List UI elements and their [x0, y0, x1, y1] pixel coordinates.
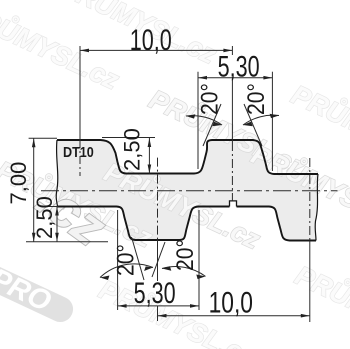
arrowheads: [32, 49, 310, 318]
tooth2 top extension + centerline x=232.4: [231, 46, 233, 55]
svg-text:20°: 20°: [196, 83, 223, 115]
bottom 5,30 extensions: [117, 210, 119, 310]
left wavy break line: [56, 140, 58, 207]
bottom-right 20 arc arrows: [162, 266, 171, 271]
top-right 20 arc arrows: [243, 122, 253, 127]
belt profile body: [56, 140, 318, 241]
svg-text:20°: 20°: [112, 244, 139, 276]
bottom-left 20 arc arrows: [100, 276, 109, 281]
5,30 top dim line + extensions: [198, 77, 272, 79]
20 deg bottom-right arc: [162, 267, 206, 277]
dimension texts: [6, 22, 269, 319]
20 deg bottom-left arc: [100, 264, 153, 278]
2,50 top: extension + dim line: [102, 137, 155, 139]
svg-text:2,50: 2,50: [32, 196, 57, 239]
svg-text:5,30: 5,30: [134, 275, 176, 309]
bottom 10,0 arrows: [158, 314, 167, 318]
5,30 top arrows: [198, 76, 207, 80]
svg-text:5,30: 5,30: [218, 49, 260, 83]
20 deg bottom-left slant: [132, 237, 145, 280]
big faded logo band bottom-left: [0, 259, 77, 326]
20 deg top-right arc: [243, 115, 279, 125]
svg-text:2,50: 2,50: [120, 128, 145, 171]
thin lines: [26, 46, 338, 322]
20 deg top-right slant: [244, 104, 262, 146]
tooth1 top centerline/extension x=80: [79, 46, 81, 140]
bottom 10,0 dim line: [158, 315, 310, 317]
bottom tooth2 centerline x=309.8: [309, 158, 311, 241]
right wavy break line: [315, 174, 318, 241]
7,00 extension lines: [29, 137, 57, 139]
root line extension left of wavy: [47, 206, 58, 208]
notch on bottom root: [230, 201, 237, 207]
horizontal centerline: [41, 190, 338, 192]
svg-text:DT10: DT10: [63, 143, 94, 160]
2,50 top arrows: [148, 138, 152, 147]
belt outline bottom run: [57, 207, 316, 241]
bottom 5,30 arrows: [118, 304, 127, 308]
svg-text:10,0: 10,0: [209, 285, 253, 319]
10,0 top arrows: [80, 49, 89, 53]
belt outline top run: [57, 140, 318, 174]
20 deg top-left slant: [203, 104, 221, 146]
7,00 dim line: [33, 138, 35, 242]
svg-text:7,00: 7,00: [6, 162, 31, 205]
svg-text:20°: 20°: [243, 83, 270, 115]
7,00 arrows: [32, 138, 36, 147]
bottom 5,30 dim line: [118, 305, 199, 307]
bottom tooth1 centerline x=157.5: [157, 158, 159, 240]
svg-text:20°: 20°: [172, 239, 199, 271]
10,0 top dimension line: [80, 49, 232, 51]
top-left 20 arc arrows: [186, 114, 195, 118]
20 deg top-left arc: [186, 116, 222, 125]
20 deg bottom-right slant: [152, 242, 165, 277]
svg-text:10,0: 10,0: [130, 22, 172, 56]
2,50 bottom arrows: [55, 207, 59, 216]
2,50 bottom dim line: [56, 207, 58, 242]
